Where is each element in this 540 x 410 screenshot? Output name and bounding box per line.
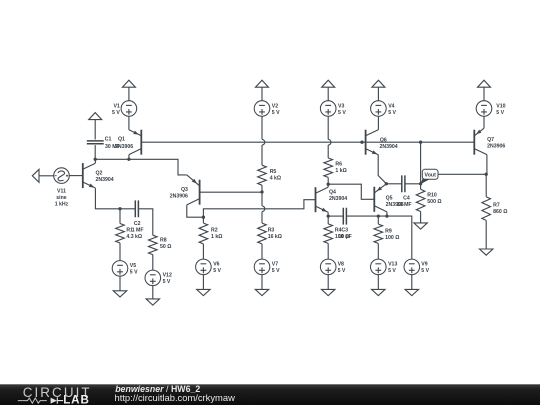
svg-text:2N3906: 2N3906 <box>115 144 133 150</box>
ground under V9 <box>405 289 418 295</box>
wire Q1 base rail to Q7 base <box>141 141 474 143</box>
svg-text:500 Ω: 500 Ω <box>427 199 441 205</box>
capacitor C4 <box>402 175 405 192</box>
wire Q3 collector to R2 node <box>187 205 204 217</box>
wire C2 right plate to R8 <box>138 209 152 235</box>
wire to R6 <box>327 145 329 158</box>
wire Q7 collector down <box>486 155 488 175</box>
svg-text:5 V: 5 V <box>112 110 120 116</box>
svg-text:Q7: Q7 <box>487 137 494 143</box>
ground under V6 <box>197 289 210 295</box>
svg-text:5 V: 5 V <box>496 110 504 116</box>
capacitor C1 <box>87 141 104 144</box>
wire R7 to ground <box>485 220 487 249</box>
sine source V11 <box>54 168 70 184</box>
wire Vout to Q7 collector node <box>438 173 486 175</box>
svg-text:1 kHz: 1 kHz <box>55 202 69 208</box>
wire flag to V3 <box>327 87 329 101</box>
svg-text:Q6: Q6 <box>380 138 387 144</box>
junction Q2 emitter/R1/C2 <box>118 207 121 210</box>
wire node to C4 <box>386 183 401 185</box>
resistor R9 <box>374 224 383 243</box>
svg-text:16 kΩ: 16 kΩ <box>268 234 282 240</box>
junction Q1 collector <box>127 158 130 161</box>
transistor Q5 <box>374 184 387 212</box>
wire Q3 base to R5/R3 node <box>200 191 262 193</box>
wire R5 to Q3 base node <box>261 185 263 192</box>
input port flag <box>32 169 39 182</box>
svg-text:1 kΩ: 1 kΩ <box>211 234 222 240</box>
junction R5/R3/Q3 base <box>260 190 263 193</box>
voltage source V6 <box>196 259 212 275</box>
svg-text:5 V: 5 V <box>421 268 429 274</box>
svg-text:2N3904: 2N3904 <box>380 144 398 150</box>
svg-text:5 V: 5 V <box>272 268 280 274</box>
wire flag to V2 <box>261 87 263 101</box>
svg-text:V11: V11 <box>57 189 66 195</box>
svg-text:4.3 kΩ: 4.3 kΩ <box>126 234 142 240</box>
wire C3 to R9 node <box>346 215 378 217</box>
wire input flag to V11 <box>39 175 54 177</box>
wire Q2 emitter down to C2/R1 node <box>95 188 120 209</box>
junction C1/Q2 collector <box>94 158 97 161</box>
wire V4 to Q6 collector <box>377 116 379 130</box>
wire R2 to V6 <box>202 244 204 259</box>
wire node down to R1 <box>119 209 121 224</box>
node Vout flag pointer wedge <box>420 179 429 185</box>
svg-text:R2: R2 <box>211 228 218 234</box>
wire Q3 collector node to Q4 base <box>203 200 315 218</box>
power flag above V1 <box>122 80 135 87</box>
resistor R8 <box>149 235 158 254</box>
svg-text:http://circuitlab.com/crkymaw: http://circuitlab.com/crkymaw <box>115 392 236 403</box>
wire V5 to ground <box>119 276 121 291</box>
wire node to C2 left plate <box>120 208 135 210</box>
ground under V8 <box>322 289 335 295</box>
junction Vout branch <box>419 141 422 144</box>
wire R4 to V8 <box>327 243 329 259</box>
wire V9 to ground <box>411 275 413 290</box>
wire into R7 <box>485 174 487 196</box>
wire into R4 <box>327 216 329 224</box>
svg-text:50 Ω: 50 Ω <box>160 244 171 250</box>
transistor Q2 <box>83 163 96 189</box>
svg-text:C3: C3 <box>341 228 348 234</box>
svg-text:1 MF: 1 MF <box>132 228 144 234</box>
junction Q6/Q5 emitters/C4 <box>385 182 388 185</box>
junction R9 top <box>377 214 380 217</box>
power flag above V4 <box>372 80 385 87</box>
svg-text:V13: V13 <box>388 262 397 268</box>
svg-text:2N3904: 2N3904 <box>96 177 114 183</box>
voltage source V5 <box>112 261 128 277</box>
transistor Q6 <box>366 130 379 156</box>
svg-text:LAB: LAB <box>63 394 90 406</box>
power flag above V2 <box>256 80 269 87</box>
wire to R3 <box>261 192 263 206</box>
voltage source V2 <box>254 101 270 117</box>
wire V3 down <box>327 116 329 139</box>
wire R10 to ground <box>420 212 422 223</box>
wire R1 to V5 <box>119 243 121 261</box>
ground under V7 <box>255 289 268 295</box>
voltage source V4 <box>371 101 387 117</box>
wire node to C3 <box>328 215 343 217</box>
svg-text:V1: V1 <box>113 103 119 109</box>
ground under V12 <box>146 299 159 305</box>
svg-text:V12: V12 <box>163 273 172 279</box>
svg-text:5 V: 5 V <box>272 110 280 116</box>
svg-text:5 V: 5 V <box>213 268 221 274</box>
wire V8 to ground <box>327 275 329 290</box>
transistor Q7 <box>474 128 487 155</box>
resistor R1 <box>116 224 125 244</box>
transistor Q4 <box>316 187 329 213</box>
svg-text:Q3: Q3 <box>181 187 188 193</box>
svg-text:R5: R5 <box>270 169 277 175</box>
svg-text:Q5: Q5 <box>386 195 393 201</box>
ground under V5 <box>113 291 126 297</box>
wire flag to V1 <box>128 87 130 101</box>
svg-text:5 V: 5 V <box>130 270 138 276</box>
ground under V13 <box>372 289 385 295</box>
svg-text:5 V: 5 V <box>338 268 346 274</box>
svg-text:C4: C4 <box>403 195 410 201</box>
svg-text:sine: sine <box>56 195 66 201</box>
svg-text:R1: R1 <box>126 228 133 234</box>
svg-text:V3: V3 <box>338 103 344 109</box>
power flag above C1 <box>89 113 102 120</box>
wire R3 to V7 <box>261 244 263 259</box>
wire hop over base rail <box>328 139 331 145</box>
svg-text:860 Ω: 860 Ω <box>493 209 507 215</box>
svg-text:V4: V4 <box>388 103 394 109</box>
wire Q2/Q1 collector rail to Q3 emitter <box>95 159 187 175</box>
svg-text:Q4: Q4 <box>329 190 336 196</box>
wire collector node to Q5 base <box>328 184 374 199</box>
junction Q4 emitter/R4/C3 <box>327 214 330 217</box>
wire Q4 collector up <box>327 184 329 187</box>
wire V1 to Q1 emitter <box>128 116 130 130</box>
wire flag to C1 <box>94 120 96 140</box>
svg-text:C2: C2 <box>134 221 141 227</box>
resistor R6 <box>324 158 333 177</box>
svg-text:R9: R9 <box>385 229 392 235</box>
svg-text:V6: V6 <box>213 262 219 268</box>
svg-text:R8: R8 <box>160 237 167 243</box>
resistor R2 <box>199 223 208 244</box>
wire V10 to Q7 emitter <box>483 116 485 128</box>
voltage source V10 <box>476 101 492 117</box>
svg-text:Vout: Vout <box>424 173 436 179</box>
junction R6/Q4 collector <box>327 183 330 186</box>
wire V7 to ground <box>261 275 263 290</box>
node Vout flag <box>422 169 438 179</box>
CircuitLab logo resistor squiggle and diode <box>18 398 47 403</box>
svg-text:V8: V8 <box>338 262 344 268</box>
svg-text:R6: R6 <box>335 162 342 168</box>
svg-text:2N3904: 2N3904 <box>329 196 347 202</box>
wire hop over base rail <box>262 139 265 145</box>
wire flag to V4 <box>377 87 379 101</box>
resistor R4 <box>324 224 333 244</box>
voltage source V3 <box>320 101 336 117</box>
resistor R10 <box>416 189 425 211</box>
wire R9 node to V9 <box>378 216 412 259</box>
wire V13 to ground <box>377 275 379 290</box>
wire R6 to Q4 collector node <box>327 177 329 184</box>
voltage source V13 <box>371 259 387 275</box>
svg-text:2N3906: 2N3906 <box>170 193 188 199</box>
wire Q2 collector up <box>94 159 96 163</box>
wire V12 to ground <box>152 286 154 299</box>
resistor R5 <box>258 165 267 185</box>
junction C4/R10/Vout branch <box>419 182 422 185</box>
wire C4 to R10 node <box>405 183 421 185</box>
wire flag to V10 <box>483 87 485 101</box>
wire into R10 <box>420 184 422 190</box>
svg-text:V9: V9 <box>421 262 427 268</box>
wire into R2 <box>202 217 204 223</box>
wire Q4 emitter down <box>327 212 329 216</box>
junction Q6 base <box>360 141 363 144</box>
resistor R3 <box>258 223 267 244</box>
svg-text:V7: V7 <box>272 262 278 268</box>
svg-text:R7: R7 <box>493 202 500 208</box>
svg-text:30 MF: 30 MF <box>397 202 412 208</box>
wire R8 to V12 <box>152 255 154 271</box>
transistor Q1 <box>129 130 141 155</box>
wire into R9 <box>377 216 379 224</box>
svg-text:V5: V5 <box>130 263 136 269</box>
wire R9 to V13 <box>377 243 379 259</box>
svg-text:Q1: Q1 <box>118 137 125 143</box>
wire to R5 <box>261 145 263 165</box>
capacitor C3 <box>343 208 346 225</box>
wire V2 down <box>261 116 263 139</box>
transistor Q3 <box>187 175 200 205</box>
voltage source V7 <box>254 259 270 275</box>
wire V11 to Q2 base <box>69 175 83 177</box>
svg-text:100 Ω: 100 Ω <box>385 235 399 241</box>
svg-text:V2: V2 <box>272 103 278 109</box>
svg-text:10 µF: 10 µF <box>338 234 351 240</box>
wire C1 to collector rail <box>94 145 96 159</box>
svg-text:R10: R10 <box>427 193 437 199</box>
svg-text:R3: R3 <box>268 228 275 234</box>
voltage source V8 <box>320 259 336 275</box>
ground under R7 <box>480 249 493 255</box>
svg-text:2N3906: 2N3906 <box>487 143 505 149</box>
svg-text:1 kΩ: 1 kΩ <box>335 168 346 174</box>
wire Q5 collector down to rail <box>386 212 388 216</box>
svg-text:5 V: 5 V <box>388 110 396 116</box>
ground under R10 <box>414 223 427 229</box>
voltage source V1 <box>121 101 137 117</box>
power flag above V10 <box>478 80 491 87</box>
resistor R7 <box>482 197 491 221</box>
svg-text:5 V: 5 V <box>388 268 396 274</box>
voltage source V12 <box>145 270 161 286</box>
wire Q6 emitter to Q5 emitter node <box>378 155 386 184</box>
svg-text:C1: C1 <box>105 137 112 143</box>
wire Q1 collector down <box>128 155 130 160</box>
power flag above V3 <box>322 80 335 87</box>
junction R2 top <box>202 216 205 219</box>
svg-text:4 kΩ: 4 kΩ <box>270 175 281 181</box>
svg-text:V10: V10 <box>496 103 505 109</box>
svg-text:Q2: Q2 <box>96 171 103 177</box>
voltage source V9 <box>404 259 420 275</box>
wire Vout branch vertical <box>420 142 422 184</box>
wire hop over R2-Q4 wire <box>262 206 265 212</box>
junction Q5 collector <box>385 214 388 217</box>
wire V6 to ground <box>202 275 204 290</box>
svg-text:5 V: 5 V <box>163 279 171 285</box>
junction Q7 collector/R7 <box>485 173 488 176</box>
wire into R3 <box>261 212 263 224</box>
svg-text:5 V: 5 V <box>338 110 346 116</box>
capacitor C2 <box>135 200 138 217</box>
